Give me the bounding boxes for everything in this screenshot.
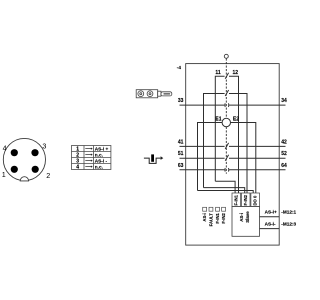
AS-i slave block U1 <box>232 207 260 237</box>
svg-text:12: 12 <box>233 70 239 76</box>
wire 63 <box>180 169 225 171</box>
svg-text:33: 33 <box>178 98 184 104</box>
pin 1 dot <box>11 166 18 173</box>
pin 4 dot <box>11 149 18 156</box>
svg-text:F-IN2: F-IN2 <box>243 194 248 205</box>
wire 64 <box>229 169 285 171</box>
pin 2 dot <box>32 166 39 173</box>
svg-text:-M12:1: -M12:1 <box>281 210 296 215</box>
solenoid interlock icon <box>144 154 163 163</box>
svg-text:51: 51 <box>178 151 184 157</box>
bus wire DO0 <box>198 191 254 194</box>
svg-text:F-IN2: F-IN2 <box>221 213 226 224</box>
actuator key icon <box>136 90 172 98</box>
bus wire F-IN1 <box>215 181 235 193</box>
svg-text:52: 52 <box>281 151 287 157</box>
svg-text:E1: E1 <box>215 117 221 123</box>
svg-text:-M12:3: -M12:3 <box>281 221 296 226</box>
svg-text:3: 3 <box>42 142 46 151</box>
svg-text:2: 2 <box>46 171 50 180</box>
wire E2 <box>231 123 256 194</box>
svg-text:-4: -4 <box>177 65 182 70</box>
pin assignment table frame <box>72 146 111 170</box>
contact 51-52 slash <box>225 155 228 161</box>
wire AS-i+ <box>260 216 280 218</box>
wire channel2 right <box>229 94 247 194</box>
LED AS-i <box>203 207 207 211</box>
contact 63-64 ticks <box>225 168 229 172</box>
mechanical linkage (dashed) <box>225 59 227 174</box>
contact 33-34 ticks <box>225 103 229 107</box>
svg-text:F-IN1: F-IN1 <box>234 194 239 205</box>
wire 51 <box>180 157 225 159</box>
LED F-IN2 <box>222 207 226 211</box>
contact channel2 slash <box>225 90 228 96</box>
svg-text:E2: E2 <box>233 117 239 123</box>
svg-text:AS-i+: AS-i+ <box>265 210 277 215</box>
svg-text:DO 0: DO 0 <box>253 195 258 205</box>
wire 11 to contact <box>215 76 224 181</box>
terminal F-IN2 <box>241 193 250 207</box>
wire 34 <box>229 104 285 106</box>
wire 52 <box>229 157 286 159</box>
svg-text:n.c.: n.c. <box>95 165 103 170</box>
enclosure box -4 <box>186 64 280 246</box>
svg-text:63: 63 <box>178 163 184 169</box>
svg-text:AS-i: AS-i <box>239 213 244 222</box>
actuator head <box>224 54 228 58</box>
coil E1-E2 <box>222 118 230 126</box>
LED F-IN1 <box>216 207 220 211</box>
wire contact to 12 <box>229 76 239 193</box>
svg-text:34: 34 <box>281 98 287 104</box>
svg-text:11: 11 <box>215 70 221 76</box>
svg-text:42: 42 <box>281 139 287 145</box>
svg-text:FAULT: FAULT <box>208 213 213 227</box>
bus wire F-IN2 <box>204 188 245 193</box>
svg-text:AS-i +: AS-i + <box>95 147 109 152</box>
wire AS-i- <box>260 228 280 230</box>
svg-text:AS-i-: AS-i- <box>265 221 276 226</box>
wire 42 <box>229 145 286 147</box>
pin 3 dot <box>31 149 38 156</box>
contact 11-12 slash <box>225 73 228 79</box>
LED FAULT <box>209 207 213 211</box>
svg-text:64: 64 <box>281 163 287 169</box>
svg-text:4: 4 <box>76 165 79 171</box>
contact 41-42 slash <box>225 143 228 149</box>
wire E1 <box>198 123 223 191</box>
svg-text:n.c.: n.c. <box>95 153 103 158</box>
terminal DO 0 <box>251 193 260 207</box>
svg-text:AS-i -: AS-i - <box>95 159 108 164</box>
connector keyway notch <box>20 177 28 181</box>
svg-text:AS-i: AS-i <box>202 213 207 221</box>
wire 41 <box>180 145 225 147</box>
svg-text:1: 1 <box>2 170 6 179</box>
wire channel2 left <box>204 94 225 188</box>
terminal F-IN1 <box>232 193 241 207</box>
svg-text:41: 41 <box>178 139 184 145</box>
svg-text:Slave: Slave <box>245 211 250 223</box>
wire 33 <box>180 104 225 106</box>
svg-text:F-IN1: F-IN1 <box>215 213 220 224</box>
connector M12 face <box>3 138 45 180</box>
svg-text:4: 4 <box>3 143 7 152</box>
